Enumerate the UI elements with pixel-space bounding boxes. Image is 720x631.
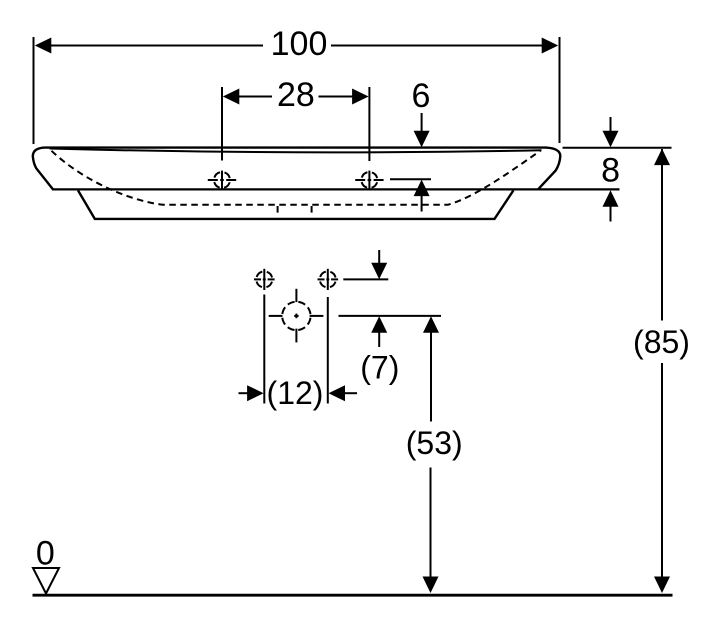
dimension (12): left-pointing arrowhead bbox=[329, 385, 346, 401]
svg-text:100: 100 bbox=[271, 25, 328, 63]
dimension (7)/(53): drain level reference line bbox=[339, 315, 442, 317]
svg-text:8: 8 bbox=[601, 151, 620, 189]
dimension (7): down arrowhead bbox=[371, 263, 387, 280]
mounting hole right extension line bbox=[327, 297, 329, 404]
washbasin outer rim outline bbox=[33, 148, 561, 190]
dimension 6: up arrowhead to level line bbox=[414, 180, 430, 197]
svg-text:(85): (85) bbox=[633, 324, 690, 360]
dimension 6: lower arrow shaft bbox=[421, 194, 423, 212]
floor baseline bbox=[33, 594, 673, 597]
dimension 100: left extension line bbox=[33, 37, 35, 144]
dimension (7): lower arrow shaft bbox=[378, 331, 380, 347]
dimension 100: right extension line bbox=[559, 37, 561, 143]
tap hole right: centerline cross bbox=[355, 171, 383, 191]
dimension (53): vertical line upper segment bbox=[430, 331, 432, 422]
dimension 100: left arrowhead bbox=[35, 38, 52, 54]
svg-text:(53): (53) bbox=[406, 425, 463, 461]
washbasin pedestal outline bbox=[78, 190, 513, 219]
dimension (12): left leader line bbox=[239, 392, 250, 394]
tap hole right: dashed circle bbox=[361, 172, 377, 188]
hidden overflow tick right bbox=[311, 206, 313, 213]
svg-text:(12): (12) bbox=[267, 375, 324, 411]
washbasin hidden inner bowl outline (dashed) bbox=[52, 151, 541, 205]
tap hole left: dashed circle bbox=[214, 172, 230, 188]
dimension (53): vertical line lower segment bbox=[430, 468, 432, 592]
dimension 28: left extension line bbox=[221, 87, 223, 161]
dimension (85): vertical line lower segment bbox=[661, 363, 663, 591]
dimension (7): up arrowhead bbox=[371, 316, 387, 333]
dimension (53): up arrowhead bbox=[423, 316, 439, 333]
datum triangle symbol bbox=[33, 568, 59, 594]
hidden overflow tick left bbox=[277, 206, 279, 213]
dimension 8: lower arrow shaft bbox=[610, 205, 612, 222]
svg-text:0: 0 bbox=[36, 535, 55, 573]
mounting hole level line bbox=[343, 278, 388, 280]
dimension 28: right extension line bbox=[368, 87, 370, 161]
mounting hole left: dashed circle bbox=[256, 271, 272, 287]
dimension (12): right-pointing arrowhead bbox=[247, 385, 264, 401]
svg-text:28: 28 bbox=[277, 76, 315, 114]
svg-text:(7): (7) bbox=[360, 349, 399, 385]
drain hole: dashed circle bbox=[282, 302, 310, 330]
dimension (85): up arrowhead at top bbox=[654, 149, 670, 166]
dimension (85): down arrowhead at baseline bbox=[654, 577, 670, 594]
dimension (7): upper arrow shaft bbox=[378, 250, 380, 265]
svg-text:6: 6 bbox=[412, 77, 431, 115]
dimension 8: top reference line bbox=[563, 147, 672, 149]
mounting hole right: centerline cross bbox=[318, 269, 339, 290]
washbasin bottom edge line (extends right to 8-dim) bbox=[52, 188, 620, 190]
dimension (12): right leader line bbox=[343, 392, 357, 394]
washbasin inner rim line bbox=[50, 149, 542, 153]
mounting hole left: centerline cross bbox=[254, 269, 275, 290]
drain hole: centerline cross bbox=[269, 289, 324, 343]
dimension 28: dimension line segments bbox=[237, 96, 354, 98]
dimension 6: down arrowhead onto rim bbox=[414, 131, 430, 148]
dimension 8: down arrowhead bbox=[603, 131, 619, 148]
dimension 6: upper arrow shaft bbox=[421, 113, 423, 133]
tap hole left: centerline cross bbox=[208, 171, 236, 191]
dimension (53): down arrowhead at baseline bbox=[423, 577, 439, 594]
mounting hole left extension line bbox=[263, 295, 265, 404]
dimension 100: right arrowhead bbox=[542, 38, 559, 54]
dimension 8: up arrowhead bbox=[603, 190, 619, 207]
dimension (85): vertical line upper segment bbox=[661, 149, 663, 321]
dimension 100: dimension line segments bbox=[48, 45, 544, 47]
dimension 28: left arrowhead bbox=[223, 89, 240, 105]
dimension 6: tap-hole level line bbox=[390, 178, 431, 180]
dimension 8: upper arrow shaft bbox=[610, 117, 612, 133]
dimension 28: right arrowhead bbox=[352, 89, 369, 105]
mounting hole right: dashed circle bbox=[320, 271, 336, 287]
